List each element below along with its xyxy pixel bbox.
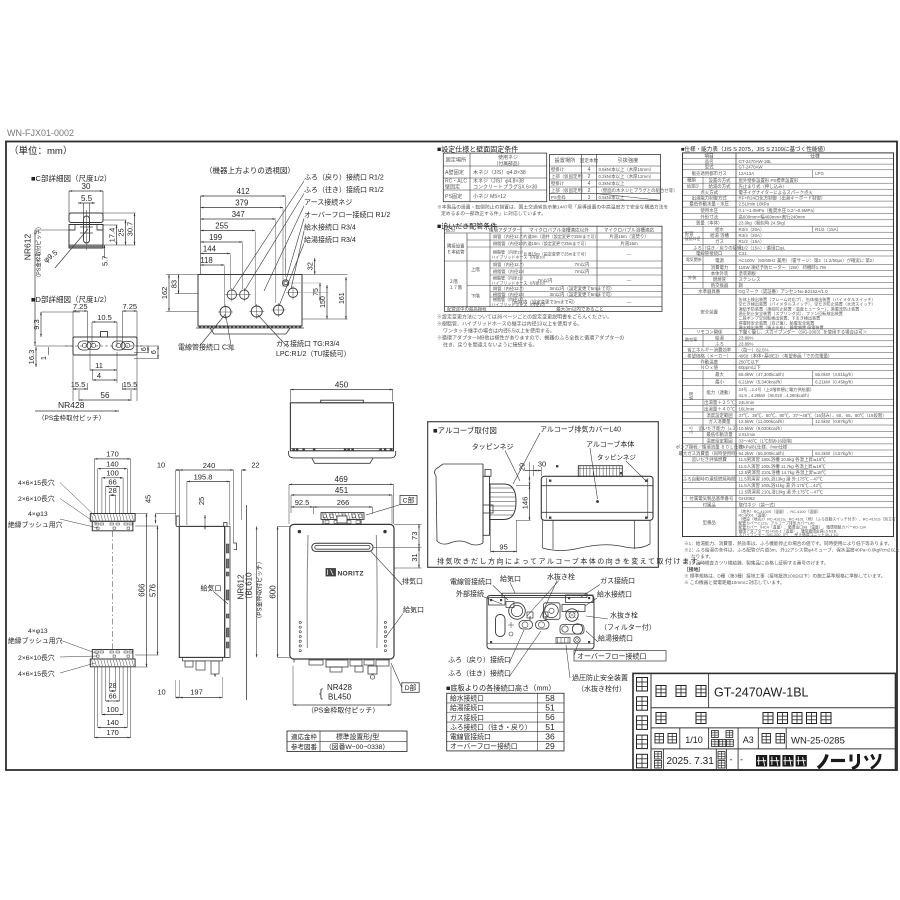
svg-text:4: 4 xyxy=(588,181,591,187)
svg-text:片道3m（酒井（設定変更で25mまで可）: 片道3m（酒井（設定変更で25mまで可） xyxy=(524,233,599,239)
border frame xyxy=(6,142,897,771)
svg-text:※2：ふろ給湯の条件は、ふろ配管が片道3m、外12アシス管φ: ※2：ふろ給湯の条件は、ふろ配管が片道3m、外12アシス管φ4ミューブ、保水温度… xyxy=(684,547,900,554)
svg-text:ガス接続口: ガス接続口 xyxy=(600,576,635,585)
svg-text:スカイブンダー-SIG-200（P）、戻止循環ユニット30-: スカイブンダー-SIG-200（P）、戻止循環ユニット30-1 1Q xyxy=(739,532,839,537)
svg-text:0.5kN/本以上（木厚15mm）: 0.5kN/本以上（木厚15mm） xyxy=(599,166,655,173)
svg-text:140: 140 xyxy=(106,460,119,469)
svg-text:※循環アダプターMB他は極性がありますので、機器のふろ全長と: ※循環アダプターMB他は極性がありますので、機器のふろ全長と循環アダプターの xyxy=(437,335,624,342)
svg-text:379: 379 xyxy=(235,198,248,207)
svg-text:146: 146 xyxy=(521,497,530,510)
svg-text:R1/2（15A）: R1/2（15A） xyxy=(739,239,765,244)
svg-text:適応金枠: 適応金枠 xyxy=(291,732,318,741)
title block row1 product name xyxy=(656,673,809,707)
svg-text:絶縁ブッシュ用穴: 絶縁ブッシュ用穴 xyxy=(8,636,63,645)
svg-text:GQマーク（認証番）アンセンNo.B2152A/1.0: GQマーク（認証番）アンセンNo.B2152A/1.0 xyxy=(739,288,829,295)
svg-text:上階: 上階 xyxy=(471,266,480,273)
svg-text:12A13A: 12A13A xyxy=(739,171,755,176)
svg-text:使用ネジ: 使用ネジ xyxy=(498,154,518,161)
svg-text:6.21kW（5,340kcal/h）: 6.21kW（5,340kcal/h） xyxy=(739,380,785,385)
rail dimension stack bottom xyxy=(94,667,130,738)
svg-text:30.7: 30.7 xyxy=(126,222,135,237)
front view 600 dim xyxy=(269,526,290,657)
side view pitch texts xyxy=(237,526,264,657)
C-detail title xyxy=(31,173,111,183)
svg-text:片道15m（設定変更で25mまで可）: 片道15m（設定変更で25mまで可） xyxy=(524,251,589,257)
svg-text:電源: 電源 xyxy=(715,257,724,264)
svg-text:73: 73 xyxy=(410,532,419,540)
svg-text:2025. 7.31: 2025. 7.31 xyxy=(667,756,715,767)
svg-text:最大3m以内であること: 最大3m以内であること xyxy=(556,305,604,312)
svg-text:195.8: 195.8 xyxy=(194,472,213,481)
rail centerline xyxy=(112,531,114,649)
svg-text:電線管接続口: 電線管接続口 xyxy=(450,577,492,586)
svg-text:アルコーブ排気カバーL40: アルコーブ排気カバーL40 xyxy=(540,425,621,434)
svg-text:BL450: BL450 xyxy=(328,693,352,702)
spec table xyxy=(676,153,900,538)
perspective view body xyxy=(196,275,304,335)
svg-text:25: 25 xyxy=(197,497,206,505)
svg-text:0.1〜1.0MPa（推奨水圧 0.2〜0.5MPa）: 0.1〜1.0MPa（推奨水圧 0.2〜0.5MPa） xyxy=(739,207,818,214)
svg-text:（壁面の木ネジとプラグとの組合せ等）: （壁面の木ネジとプラグとの組合せ等） xyxy=(599,187,678,194)
svg-text:170: 170 xyxy=(106,450,119,459)
svg-text:電線管接続口 C31: 電線管接続口 C31 xyxy=(178,343,235,352)
svg-text:給湯接続口: 給湯接続口 xyxy=(450,703,484,712)
unit label (tanni mm) xyxy=(9,145,72,157)
svg-text:11.5人演習 100L浴槽 11.7kg 各温上昇≒18℃: 11.5人演習 100L浴槽 11.7kg 各温上昇≒18℃ xyxy=(739,463,827,470)
svg-text:■C部詳細図（尺度1/2）: ■C部詳細図（尺度1/2） xyxy=(31,173,111,183)
svg-text:22: 22 xyxy=(251,461,259,470)
plan view of unit top xyxy=(289,380,396,463)
svg-text:10: 10 xyxy=(157,461,165,470)
svg-text:11: 11 xyxy=(95,361,103,370)
svg-text:販売適用都市ガス: 販売適用都市ガス xyxy=(692,170,727,177)
svg-text:23.89%: 23.89% xyxy=(739,341,754,346)
fixing table notes xyxy=(437,204,669,218)
svg-text:GT-2470AW: GT-2470AW xyxy=(739,165,764,170)
svg-text:ふろ（戻り）接続口: ふろ（戻り）接続口 xyxy=(448,655,511,664)
svg-text:2.5L/min 10kPa: 2.5L/min 10kPa xyxy=(739,202,770,207)
svg-text:266: 266 xyxy=(337,498,350,507)
svg-text:LPG: LPG xyxy=(815,171,824,176)
svg-text:11.5人演習 100L浴11kg 湯 外:175℃→42℃: 11.5人演習 100L浴11kg 湯 外:175℃→42℃ xyxy=(739,482,823,489)
svg-text:4×6×15長穴: 4×6×15長穴 xyxy=(18,669,55,678)
svg-text:55.0kW（47,300kcal/h）: 55.0kW（47,300kcal/h） xyxy=(739,372,788,377)
svg-text:576: 576 xyxy=(149,584,158,597)
svg-text:2: 2 xyxy=(588,174,591,180)
svg-text:115W 凍結予防ヒーター（2W） 待機時1.7W: 115W 凍結予防ヒーター（2W） 待機時1.7W xyxy=(739,264,827,271)
bottom view outline xyxy=(487,593,594,649)
svg-text:PS固定: PS固定 xyxy=(445,192,462,200)
svg-text:347: 347 xyxy=(232,210,245,219)
svg-text:66: 66 xyxy=(109,693,117,700)
svg-text:412: 412 xyxy=(237,187,250,196)
svg-text:2: 2 xyxy=(588,188,591,194)
svg-text:―: ― xyxy=(627,278,632,283)
svg-text:4×φ13: 4×φ13 xyxy=(28,511,48,518)
svg-text:※ 標準規格は、D種（第3種）接地工事（接地抵抗100Ω以下: ※ 標準規格は、D種（第3種）接地工事（接地抵抗100Ω以下）の施工基準規格に準… xyxy=(684,573,885,580)
svg-text:161: 161 xyxy=(339,292,346,304)
svg-text:1: 1 xyxy=(41,356,48,360)
svg-text:32: 32 xyxy=(306,262,315,270)
svg-text:4: 4 xyxy=(588,167,591,173)
svg-text:給水接続口: 給水接続口 xyxy=(450,694,484,703)
svg-text:7m以内: 7m以内 xyxy=(538,277,553,284)
svg-text:外装: 外装 xyxy=(688,274,697,281)
svg-text:出湯量＋２５℃: 出湯量＋２５℃ xyxy=(704,399,735,406)
svg-text:（PS金枠取付ピッチ）: （PS金枠取付ピッチ） xyxy=(307,706,379,715)
svg-text:41.9→4.28kW（36,020→4,280kcal/h: 41.9→4.28kW（36,020→4,280kcal/h） xyxy=(739,393,812,398)
svg-text:電線管接続口: 電線管接続口 xyxy=(696,250,722,257)
kanagu reference table xyxy=(287,731,407,752)
svg-text:■仕様・能力表（JIS S 2075，JIS S 2109に: ■仕様・能力表（JIS S 2075，JIS S 2109に基づく性能値） xyxy=(681,145,829,153)
svg-text:定めるまの一部改正する件」に対応しています。: 定めるまの一部改正する件」に対応しています。 xyxy=(441,210,546,217)
svg-text:{: { xyxy=(319,686,323,700)
svg-text:固定本数: 固定本数 xyxy=(580,157,599,164)
svg-text:給湯: 給湯 xyxy=(688,391,695,400)
svg-text:付属品: 付属品 xyxy=(703,501,717,508)
svg-text:給湯 浴槽: 給湯 浴槽 xyxy=(710,232,729,239)
svg-text:１７階: １７階 xyxy=(449,284,463,291)
svg-text:ふろ自動時の連続燃焼時間: ふろ自動時の連続燃焼時間 xyxy=(683,476,736,483)
svg-text:23.89%: 23.89% xyxy=(739,335,754,340)
svg-text:区分: 区分 xyxy=(446,227,456,234)
svg-text:最大: 最大 xyxy=(715,371,724,378)
bottom view labels xyxy=(448,572,666,693)
title block vertical text nounyuu shiyouzu xyxy=(637,678,648,768)
svg-text:仕様: 仕様 xyxy=(810,153,820,160)
svg-text:7.25: 7.25 xyxy=(122,302,137,311)
svg-text:希望価格（メーカー）: 希望価格（メーカー） xyxy=(687,352,731,359)
svg-text:NORITZ: NORITZ xyxy=(338,571,364,578)
title block frame xyxy=(633,673,896,770)
svg-text:6.21kW（0.45kg/h）: 6.21kW（0.45kg/h） xyxy=(815,380,856,385)
alcove front view xyxy=(541,465,653,551)
upper mounting rail xyxy=(90,514,135,531)
alcove note xyxy=(437,557,707,566)
svg-text:※樹脂管、ハイブリッドホースの継手は内径13以上を使用する。: ※樹脂管、ハイブリッドホースの継手は内径13以上を使用する。 xyxy=(437,321,582,328)
svg-text:469: 469 xyxy=(335,475,349,484)
svg-text:D部: D部 xyxy=(405,683,417,692)
front view bottom pipes xyxy=(294,659,389,679)
svg-text:先止まり式（押し込み）: 先止まり式（押し込み） xyxy=(739,183,787,190)
svg-text:1/10: 1/10 xyxy=(685,735,703,745)
svg-text:片道15m（追焚り）: 片道15m（追焚り） xyxy=(609,233,648,240)
svg-text:GH2082: GH2082 xyxy=(739,496,756,501)
svg-text:■設定仕様と壁面固定条件: ■設定仕様と壁面固定条件 xyxy=(437,145,518,154)
svg-text:設置の方式: 設置の方式 xyxy=(709,177,732,184)
svg-text:C部: C部 xyxy=(403,495,415,504)
svg-text:（機器上方よりの透視図）: （機器上方よりの透視図） xyxy=(205,165,295,175)
svg-text:種類: 種類 xyxy=(687,177,696,184)
spec table title xyxy=(681,145,829,153)
svg-text:7.25: 7.25 xyxy=(73,302,88,311)
svg-text:ガス接続口 TG:R3/4: ガス接続口 TG:R3/4 xyxy=(276,339,340,348)
svg-text:NR428: NR428 xyxy=(327,683,352,692)
svg-text:アース接続ネジ: アース接続ネジ xyxy=(304,198,352,207)
svg-text:塗装鋼板: 塗装鋼板 xyxy=(739,270,757,277)
svg-text:64.2kW（55,000kcal/h）: 64.2kW（55,000kcal/h） xyxy=(739,451,788,456)
D-detail drawing xyxy=(27,302,159,422)
svg-text:（付属部品）: （付属部品） xyxy=(494,160,523,167)
svg-text:壁掛け: 壁掛け xyxy=(551,166,565,173)
haiki label xyxy=(371,552,423,586)
svg-text:25: 25 xyxy=(117,228,126,236)
svg-text:600: 600 xyxy=(269,585,278,599)
svg-text:197: 197 xyxy=(190,688,203,697)
svg-text:■底板よりの各接続口高さ（mm）: ■底板よりの各接続口高さ（mm） xyxy=(446,684,556,693)
svg-text:参考図番: 参考図番 xyxy=(291,742,318,751)
perspective dimension chains xyxy=(160,187,348,320)
svg-text:4×φ13: 4×φ13 xyxy=(28,628,48,635)
svg-text:電線管接続口: 電線管接続口 xyxy=(450,732,491,741)
svg-text:24L/min: 24L/min xyxy=(739,400,755,405)
svg-text:給水接続口: 給水接続口 xyxy=(597,590,632,599)
svg-text:LPC:R1/2（TU接続可）: LPC:R1/2（TU接続可） xyxy=(276,349,351,358)
svg-text:51: 51 xyxy=(545,703,555,713)
svg-text:58: 58 xyxy=(545,693,555,703)
svg-text:―: ― xyxy=(627,252,632,257)
svg-text:追いだき評価燃費: 追いだき評価燃費 xyxy=(692,456,728,463)
svg-text:ふろ（往き）接続口 R1/2: ふろ（往き）接続口 R1/2 xyxy=(304,185,384,194)
vertical dims 666 576 xyxy=(135,514,158,668)
perspective view title xyxy=(205,165,295,175)
svg-text:140: 140 xyxy=(106,718,119,727)
side view body xyxy=(176,505,246,700)
svg-text:A3: A3 xyxy=(743,735,754,745)
svg-text:83: 83 xyxy=(170,280,179,288)
rail labels lower xyxy=(8,628,98,678)
svg-text:■D部詳細図（尺度1/2）: ■D部詳細図（尺度1/2） xyxy=(31,294,111,304)
side view kyuukikou label xyxy=(201,584,229,605)
perspective ports xyxy=(218,280,300,320)
svg-text:45: 45 xyxy=(144,495,153,503)
svg-text:標準設置形ⅉ型: 標準設置形ⅉ型 xyxy=(336,732,379,741)
svg-text:樹脂管（内径10）: 樹脂管（内径10） xyxy=(493,240,527,247)
svg-text:下聞く優し、スカイブンダー（SIG-2003）を使用する場合: 下聞く優し、スカイブンダー（SIG-2003）を使用する場合は可＞ xyxy=(739,328,868,335)
svg-text:コンクリートプラグSX 6×30: コンクリートプラグSX 6×30 xyxy=(473,184,538,191)
svg-text:給水接続口 R3/4: 給水接続口 R3/4 xyxy=(304,223,356,232)
svg-text:型番品: 型番品 xyxy=(703,519,717,526)
svg-text:最小: 最小 xyxy=(715,379,724,386)
svg-text:118: 118 xyxy=(200,256,212,265)
svg-text:最低作動水量・水圧: 最低作動水量・水圧 xyxy=(689,201,729,208)
svg-text:10: 10 xyxy=(157,688,165,697)
svg-text:水抜き栓: 水抜き栓 xyxy=(610,611,638,620)
svg-text:7m以内: 7m以内 xyxy=(575,268,590,275)
svg-text:燃焼筐: 燃焼筐 xyxy=(713,276,727,283)
svg-text:給湯び: 給湯び xyxy=(687,183,699,189)
svg-text:12.5男演習 210L浴槽 14.7kg 各温上昇≒18℃: 12.5男演習 210L浴槽 14.7kg 各温上昇≒18℃ xyxy=(739,469,827,476)
svg-text:※ この機器と発電距離10mmに対応しています。: ※ この機器と発電距離10mmに対応しています。 xyxy=(684,579,785,586)
title block row2 drawing name xyxy=(656,713,831,724)
svg-text:（水抜き栓付）: （水抜き栓付） xyxy=(577,684,626,693)
svg-text:51: 51 xyxy=(545,722,555,732)
svg-text:55.0kW（3.81kg/h）: 55.0kW（3.81kg/h） xyxy=(815,372,856,377)
svg-text:16L/min: 16L/min xyxy=(739,406,755,411)
svg-text:接続口径: 接続口径 xyxy=(685,236,700,241)
svg-text:給湯: 給湯 xyxy=(715,334,724,341)
svg-text:23.0kg（梱包時 24.5kg）: 23.0kg（梱包時 24.5kg） xyxy=(739,220,789,227)
svg-text:出湯能力制御方式: 出湯能力制御方式 xyxy=(692,195,728,202)
svg-text:11.5男演習 180L浴13kg 湯 外:175℃→47℃: 11.5男演習 180L浴13kg 湯 外:175℃→47℃ xyxy=(739,476,824,483)
svg-text:給水: 給水 xyxy=(715,226,724,233)
svg-text:（PS金枠取付ピッチ）: （PS金枠取付ピッチ） xyxy=(35,224,43,281)
svg-text:29: 29 xyxy=(518,463,527,471)
svg-text:56: 56 xyxy=(101,391,110,400)
alcove title xyxy=(433,425,497,435)
svg-text:木ネジ（JIS）φ4.8×38: 木ネジ（JIS）φ4.8×38 xyxy=(473,168,526,176)
svg-text:-: - xyxy=(730,755,733,765)
svg-text:WN-25-0285: WN-25-0285 xyxy=(791,736,845,747)
svg-text:92.5: 92.5 xyxy=(295,498,310,507)
svg-text:162: 162 xyxy=(160,287,169,300)
svg-text:給湯接続口 R3/4: 給湯接続口 R3/4 xyxy=(304,235,356,244)
svg-text:（図番W−00−0338）: （図番W−00−0338） xyxy=(325,743,389,751)
svg-text:水準器具番: 水準器具番 xyxy=(698,288,721,295)
svg-text:ガス消費量: ガス消費量 xyxy=(709,418,732,425)
svg-text:温度設定範囲: 温度設定範囲 xyxy=(706,437,733,444)
svg-text:199: 199 xyxy=(209,233,222,242)
perspective port labels xyxy=(178,173,390,359)
NORITZ logo xyxy=(326,569,364,578)
spec table notes xyxy=(684,540,900,586)
side view top dims xyxy=(144,461,260,544)
svg-text:29: 29 xyxy=(545,741,555,751)
svg-text:GT-2470AW-1BL: GT-2470AW-1BL xyxy=(714,686,809,700)
svg-text:マイクロバブル浴槽適応: マイクロバブル浴槽適応 xyxy=(604,227,655,234)
front view top bracket xyxy=(321,513,364,525)
svg-text:（PS金枠取付ピッチ）: （PS金枠取付ピッチ） xyxy=(38,413,105,422)
svg-text:0.3kN/本以上: 0.3kN/本以上 xyxy=(599,180,625,187)
svg-text:■アルコーブ取付図: ■アルコーブ取付図 xyxy=(433,425,497,435)
svg-text:66: 66 xyxy=(108,477,116,486)
svg-text:240: 240 xyxy=(203,461,216,470)
svg-text:AC100V（50/60Hz 兼用）（雷サージ：第2（1.2: AC100V（50/60Hz 兼用）（雷サージ：第2（1.2/50μs）が確実に… xyxy=(739,257,877,264)
svg-text:17.4: 17.4 xyxy=(108,228,117,243)
svg-text:使用水圧: 使用水圧 xyxy=(700,207,718,214)
svg-text:6: 6 xyxy=(151,350,158,354)
svg-text:4950（本体+基8/E3）（希望参画「での売電量）: 4950（本体+基8/E3）（希望参画「での売電量） xyxy=(739,352,833,359)
svg-text:給気口: 給気口 xyxy=(403,605,424,614)
svg-text:オーバーフロー接続口 R1/2: オーバーフロー接続口 R1/2 xyxy=(304,210,390,219)
svg-text:往き、戻りを間違えないように接続する。: 往き、戻りを間違えないように接続する。 xyxy=(443,342,538,349)
svg-text:95: 95 xyxy=(499,542,507,551)
svg-text:最大ガス消費量（同時使用時）: 最大ガス消費量（同時使用時） xyxy=(678,450,739,457)
svg-text:給気口: 給気口 xyxy=(201,584,222,593)
svg-text:NR612: NR612 xyxy=(23,234,33,261)
svg-text:（PS金枠取付ピッチ）: （PS金枠取付ピッチ） xyxy=(256,558,264,622)
svg-text:能力（連動）: 能力（連動） xyxy=(706,389,732,396)
svg-text:28: 28 xyxy=(108,486,116,495)
front view dims top xyxy=(289,475,393,524)
svg-text:上部（仮固定用）: 上部（仮固定用） xyxy=(551,187,586,194)
intake perforations xyxy=(299,621,386,651)
svg-text:2.5L/min: 2.5L/min xyxy=(739,432,756,437)
svg-text:リモコン関係: リモコン関係 xyxy=(696,328,723,335)
svg-text:12.5kW（11,000kcal/h）: 12.5kW（11,000kcal/h） xyxy=(739,419,787,424)
svg-text:（単位：mm）: （単位：mm） xyxy=(9,145,72,157)
svg-text:150: 150 xyxy=(320,296,327,308)
svg-text:銅管（内径12.7）: 銅管（内径12.7） xyxy=(493,233,526,240)
svg-text:12.5男演習 210L浴13kg 湯 外:175℃→47℃: 12.5男演習 210L浴13kg 湯 外:175℃→47℃ xyxy=(739,489,824,496)
svg-text:31: 31 xyxy=(410,553,419,561)
svg-text:Ｅ本結管: Ｅ本結管 xyxy=(447,249,465,256)
kyuuki label front xyxy=(387,605,425,636)
svg-text:片道15m（設定変更で25mまで可）: 片道15m（設定変更で25mまで可） xyxy=(524,240,589,246)
svg-text:450: 450 xyxy=(335,380,349,389)
svg-text:熱交換器: 熱交換器 xyxy=(711,282,729,289)
svg-text:ポンプ揚程／循環流量 ８０Ｌ仕様: ポンプ揚程／循環流量 ８０Ｌ仕様 xyxy=(676,444,744,451)
svg-text:隣接設置: 隣接設置 xyxy=(447,243,465,250)
svg-text:循環アダプター: 循環アダプター xyxy=(489,227,522,234)
svg-text:配管途中の最高揚程: 配管途中の最高揚程 xyxy=(447,305,487,312)
svg-text:-: - xyxy=(740,755,743,765)
svg-text:下階: 下階 xyxy=(471,293,480,300)
svg-text:給湯接続口: 給湯接続口 xyxy=(598,634,633,643)
svg-text:タッピンネジ: タッピンネジ xyxy=(472,442,514,451)
svg-text:A壁固定: A壁固定 xyxy=(445,168,464,176)
svg-text:※設定変更方法については36ページごとの設定変更説明書をごら: ※設定変更方法については36ページごとの設定変更説明書をごらんください。 xyxy=(437,314,612,321)
connection height table title xyxy=(446,684,556,693)
alcove dims xyxy=(491,460,546,553)
svg-text:消費電力: 消費電力 xyxy=(711,264,729,271)
svg-text:100: 100 xyxy=(106,469,119,478)
svg-text:（フィルター付）: （フィルター付） xyxy=(600,623,656,632)
svg-text:過圧防止安全装置: 過圧防止安全装置 xyxy=(572,673,628,682)
front view body xyxy=(290,524,394,659)
svg-text:451: 451 xyxy=(335,486,349,495)
connection height table xyxy=(447,693,564,751)
svg-text:※1：給湯能力、消費量、熱効率は、ふろ機能停止の場合の値です: ※1：給湯能力、消費量、熱効率は、ふろ機能停止の場合の値です。同時使用により低下… xyxy=(684,540,892,547)
svg-text:最低作動流量: 最低作動流量 xyxy=(706,431,733,438)
svg-text:オーバーフロー接続口: オーバーフロー接続口 xyxy=(577,652,647,661)
svg-text:9.3: 9.3 xyxy=(32,319,41,329)
svg-text:出湯量＋４０℃: 出湯量＋４０℃ xyxy=(704,405,735,412)
svg-text:C31: C31 xyxy=(739,251,748,256)
svg-text:木ネジ（JIS）φ4.8×38: 木ネジ（JIS）φ4.8×38 xyxy=(473,178,524,185)
svg-text:給湯の方式: 給湯の方式 xyxy=(709,183,732,190)
svg-text:75: 75 xyxy=(313,288,320,296)
svg-text:小ネジ M5×12: 小ネジ M5×12 xyxy=(473,192,506,200)
svg-text:ガス: ガス xyxy=(715,238,724,245)
C-detail drawing xyxy=(23,182,136,340)
svg-text:壁固定: 壁固定 xyxy=(445,184,460,191)
svg-text:屋外壁掛設置形 PS標準設置形: 屋外壁掛設置形 PS標準設置形 xyxy=(739,177,799,184)
svg-text:170: 170 xyxy=(106,728,119,737)
svg-text:15.5: 15.5 xyxy=(123,380,138,389)
svg-text:R3/4（20A）: R3/4（20A） xyxy=(739,227,765,232)
svg-text:0m以内（設定変更で3mまで可）: 0m以内（設定変更で3mまで可） xyxy=(513,299,578,306)
svg-text:水抜き栓: 水抜き栓 xyxy=(547,572,575,581)
svg-text:取付ネジ（袋一式）: 取付ネジ（袋一式） xyxy=(739,501,779,508)
svg-text:64.2kW（4.57kg/h）: 64.2kW（4.57kg/h） xyxy=(815,451,856,456)
svg-text:10.5: 10.5 xyxy=(97,313,112,322)
bottom view components xyxy=(496,602,586,644)
mounting rail dimension stack top xyxy=(94,450,130,513)
fixing spec tables title xyxy=(437,145,518,154)
svg-text:ふろ接続口（往き・戻り）: ふろ接続口（往き・戻り） xyxy=(450,722,532,731)
svg-text:30: 30 xyxy=(82,182,91,191)
svg-text:7m以内: 7m以内 xyxy=(575,261,590,268)
svg-text:2×6×10長穴: 2×6×10長穴 xyxy=(18,494,55,503)
svg-text:56: 56 xyxy=(545,712,555,722)
svg-text:255: 255 xyxy=(215,221,229,230)
svg-text:144: 144 xyxy=(203,244,217,253)
reheating piping table title xyxy=(437,222,497,231)
svg-text:R1/2（15A）: R1/2（15A） xyxy=(815,227,841,232)
svg-text:壁掛け: 壁掛け xyxy=(551,180,565,187)
svg-text:ふろ（戻り）接続口 R1/2: ふろ（戻り）接続口 R1/2 xyxy=(304,173,384,182)
